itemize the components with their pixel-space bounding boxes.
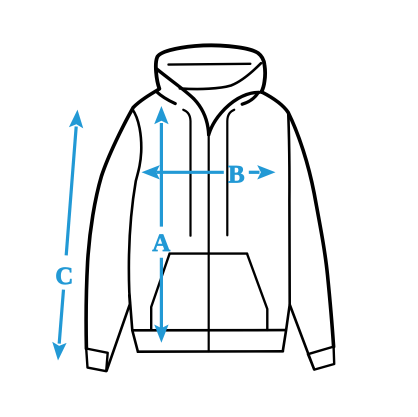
hood opening rim xyxy=(180,63,261,89)
hood outer outline xyxy=(156,45,265,92)
left sleeve inner seam xyxy=(107,295,130,371)
zipper center line xyxy=(208,135,210,352)
arrow C head top xyxy=(69,109,85,128)
hood drape V left xyxy=(156,69,209,135)
arrow A head bottom xyxy=(154,325,168,343)
hood drape V right xyxy=(209,92,259,134)
hood top seam line xyxy=(169,63,251,66)
hem band top line xyxy=(132,329,285,332)
kangaroo pocket left edge xyxy=(151,254,169,331)
measurement arrow B shaft left xyxy=(157,171,224,174)
svg-text:B: B xyxy=(228,161,245,188)
svg-text:C: C xyxy=(55,263,73,290)
right sleeve inner seam xyxy=(290,305,314,370)
arrow A head top xyxy=(154,106,168,124)
hem band bottom line xyxy=(138,350,283,353)
measurement arrow C shaft lower xyxy=(59,290,63,344)
arrow B head left xyxy=(142,165,160,179)
drawstring left xyxy=(183,110,190,236)
left cuff xyxy=(86,349,108,372)
right cuff xyxy=(308,347,334,370)
left armhole seam and body left edge xyxy=(129,109,141,352)
hood fold curve right xyxy=(242,93,258,105)
svg-text:A: A xyxy=(152,230,170,257)
arrow B head right xyxy=(257,165,275,179)
kangaroo pocket top xyxy=(170,252,247,254)
kangaroo pocket right edge xyxy=(247,254,267,331)
measurement arrow C shaft upper xyxy=(66,127,76,256)
arrow C head bottom xyxy=(51,342,67,361)
drawstring right xyxy=(227,110,234,236)
right body edge xyxy=(283,113,290,351)
measurement arrow A shaft lower xyxy=(160,258,163,330)
left shoulder and sleeve outer edge xyxy=(86,89,159,348)
hood fold curve left xyxy=(156,91,175,103)
measurement arrow B shaft right xyxy=(249,171,260,174)
right shoulder and sleeve outer edge xyxy=(261,92,333,347)
measurement arrow A shaft upper xyxy=(160,123,163,227)
